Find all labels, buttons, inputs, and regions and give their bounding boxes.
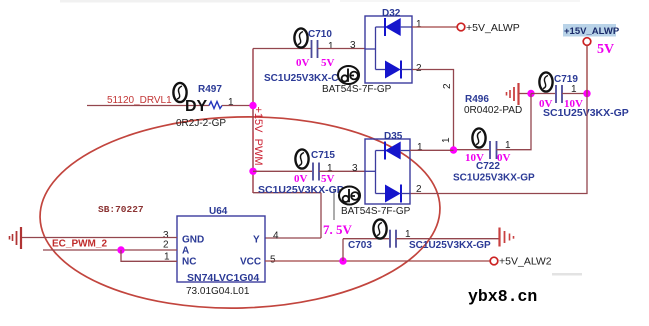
svg-text:D32: D32 bbox=[382, 8, 401, 19]
pad symbol (C703) bbox=[500, 228, 514, 247]
svg-text:73.01G04.L01: 73.01G04.L01 bbox=[186, 286, 250, 297]
wire GND pad to U64 pin 3 bbox=[22, 237, 177, 239]
wire EC_PWM_2 to U64 pin 1 bbox=[121, 250, 177, 261]
terminal +5V_ALWP bbox=[457, 23, 465, 31]
wire R497 to node +15V_PWM bbox=[222, 105, 253, 107]
wire C710 to D32 pin 3 bbox=[318, 48, 366, 50]
stamp mark (circle GP) on D35 bbox=[339, 187, 360, 205]
node junction C715/+15V_PWM bbox=[249, 168, 256, 175]
stamp mark (oval) on C719 bbox=[539, 72, 552, 91]
svg-text:SC1U25V3KX-GP: SC1U25V3KX-GP bbox=[453, 173, 535, 184]
wire node junction to C722 bbox=[454, 149, 490, 151]
svg-text:BAT54S-7F-GP: BAT54S-7F-GP bbox=[322, 84, 392, 95]
node junction VCC/C703 bbox=[339, 257, 346, 264]
svg-text:5V: 5V bbox=[597, 42, 614, 57]
capacitor C703 bbox=[390, 230, 396, 248]
stamp mark (oval) on R497 bbox=[173, 83, 186, 102]
svg-text:SC1U25V3KX-C: SC1U25V3KX-C bbox=[264, 73, 338, 84]
svg-text:DY: DY bbox=[185, 98, 208, 115]
wire D32 pin1 to +5V_ALWP bbox=[412, 26, 457, 28]
net +15V_ALWP highlighted label bbox=[563, 24, 616, 37]
svg-text:GND: GND bbox=[182, 235, 204, 246]
wire U64 VCC to +5V_ALW2 bbox=[265, 260, 490, 262]
svg-text:+15V_ALWP: +15V_ALWP bbox=[564, 26, 620, 37]
svg-text:NC: NC bbox=[182, 257, 196, 268]
node junction R497/+15V_PWM bbox=[249, 102, 256, 109]
svg-text:0R0402-PAD: 0R0402-PAD bbox=[464, 105, 522, 116]
wire +15V_PWM vertical bbox=[252, 49, 254, 194]
capacitor C719 bbox=[556, 85, 562, 103]
svg-text:+5V_ALW2: +5V_ALW2 bbox=[499, 256, 552, 268]
wire node A to C719 bbox=[531, 93, 555, 95]
wire C703 branch vertical bbox=[342, 239, 344, 261]
wire Y net vertical bbox=[320, 193, 322, 238]
svg-text:BAT54S-7F-GP: BAT54S-7F-GP bbox=[341, 206, 411, 217]
svg-text:3: 3 bbox=[352, 163, 358, 174]
svg-text:C703: C703 bbox=[348, 240, 372, 251]
stamp mark (circle GP) on D32 bbox=[338, 66, 359, 84]
svg-text:C710: C710 bbox=[308, 29, 332, 40]
terminal +5V_ALW2 bbox=[490, 257, 498, 265]
svg-text:C722: C722 bbox=[476, 161, 500, 172]
svg-text:R497: R497 bbox=[198, 84, 222, 95]
svg-text:A: A bbox=[182, 246, 189, 257]
capacitor C715 bbox=[313, 163, 319, 181]
pad symbol (GND) bbox=[10, 227, 22, 249]
wire C719 to node B bbox=[562, 93, 587, 95]
wire pad to node A bbox=[519, 93, 531, 95]
svg-text:5: 5 bbox=[270, 255, 276, 266]
svg-text:1: 1 bbox=[228, 97, 234, 108]
svg-text:1: 1 bbox=[416, 19, 422, 30]
wire C703 branch horizontal bbox=[343, 238, 389, 240]
wire C715 to D35 pin 3 bbox=[319, 170, 365, 172]
stamp mark (oval) on C710 bbox=[294, 28, 307, 47]
capacitor C710 bbox=[312, 40, 318, 58]
svg-text:VCC: VCC bbox=[240, 257, 261, 268]
svg-text:+5V_ALWP: +5V_ALWP bbox=[466, 22, 520, 34]
wire C703 to pad bbox=[396, 238, 499, 240]
wire +15V_PWM to Y net horizontal bbox=[253, 192, 321, 194]
svg-text:2: 2 bbox=[416, 184, 422, 195]
svg-text:SC1U25V3KX-GP: SC1U25V3KX-GP bbox=[409, 240, 491, 251]
svg-text:Y: Y bbox=[253, 235, 260, 246]
wire D35 pin1 to node bbox=[410, 149, 454, 151]
svg-text:5V: 5V bbox=[321, 57, 335, 69]
svg-text:C715: C715 bbox=[311, 150, 335, 161]
svg-text:7. 5V: 7. 5V bbox=[323, 222, 353, 237]
diode D32 (BAT54S) bbox=[365, 16, 412, 83]
wire EC_PWM_2 to U64 pin 2 bbox=[43, 249, 177, 251]
svg-text:ybx8.cn: ybx8.cn bbox=[468, 287, 537, 306]
svg-text:+15V_PWM: +15V_PWM bbox=[252, 107, 264, 166]
resistor R497 (zigzag) bbox=[209, 102, 222, 109]
svg-text:4: 4 bbox=[273, 231, 279, 242]
svg-text:1: 1 bbox=[328, 41, 334, 52]
svg-text:SB:70227: SB:70227 bbox=[98, 204, 144, 215]
svg-text:SC1U25V3KX-GP: SC1U25V3KX-GP bbox=[258, 184, 344, 196]
stamp mark (oval) on C715 bbox=[295, 149, 308, 168]
wire D32 pin2 to R496 bbox=[412, 70, 454, 151]
node A junction (pad/C719/C722) bbox=[527, 90, 534, 97]
svg-text:3: 3 bbox=[350, 40, 356, 51]
pad symbol (R496) bbox=[507, 83, 519, 105]
svg-text:0V: 0V bbox=[296, 57, 310, 69]
node junction D35 pin1 / R496 / C722 bbox=[450, 146, 457, 153]
svg-text:2: 2 bbox=[416, 63, 422, 74]
svg-text:U64: U64 bbox=[209, 206, 228, 217]
svg-text:SN74LVC1G04: SN74LVC1G04 bbox=[187, 272, 259, 284]
wire +15V_PWM to C710 bbox=[253, 48, 311, 50]
wire +15V_ALWP to node B bbox=[586, 45, 588, 93]
wire Y net to U64 pin Y bbox=[265, 237, 321, 239]
wire C715 to node +15V_PWM bbox=[253, 170, 312, 172]
diode D35 (BAT54S) bbox=[365, 139, 410, 204]
svg-text:SC1U25V3KX-GP: SC1U25V3KX-GP bbox=[543, 107, 629, 119]
svg-text:D35: D35 bbox=[384, 131, 403, 142]
svg-text:0R2J-2-GP: 0R2J-2-GP bbox=[176, 118, 226, 129]
svg-text:51120_DRVL1: 51120_DRVL1 bbox=[107, 95, 172, 106]
gate U64 bbox=[177, 216, 265, 282]
capacitor C722 bbox=[490, 141, 497, 159]
wire net 51120_DRVL1 to R497 bbox=[87, 105, 209, 107]
svg-text:2: 2 bbox=[163, 240, 169, 251]
terminal +15V_ALWP bbox=[583, 38, 591, 46]
node junction EC_PWM_2 bbox=[117, 246, 124, 253]
measurement leader line bbox=[333, 190, 335, 220]
svg-text:1: 1 bbox=[417, 142, 423, 153]
svg-text:EC_PWM_2: EC_PWM_2 bbox=[52, 239, 107, 250]
highlight ellipse bbox=[38, 112, 443, 313]
wire node B to D35 pin2 bbox=[410, 94, 587, 194]
svg-text:R496: R496 bbox=[465, 94, 489, 105]
svg-text:2: 2 bbox=[442, 83, 453, 89]
stamp mark (oval) on C722 bbox=[472, 128, 485, 147]
node B junction (+15V_ALWP) bbox=[583, 90, 590, 97]
stamp mark (oval) on C703 bbox=[373, 219, 386, 238]
svg-text:1: 1 bbox=[441, 137, 452, 143]
wire C722 to node A bbox=[497, 94, 532, 150]
